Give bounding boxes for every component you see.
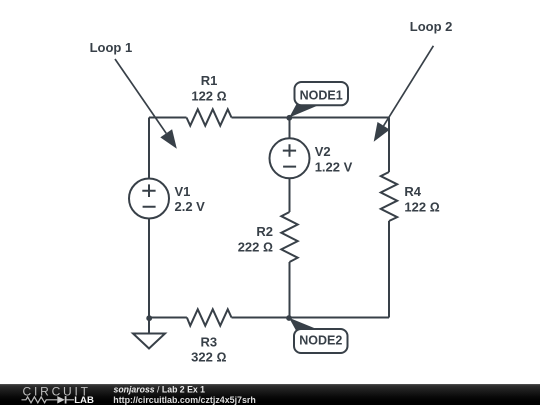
footer title text <box>114 384 206 394</box>
wire top middle (R1 to top-right corner through NODE1) <box>232 117 390 119</box>
footer logo resistor zigzag and diode <box>22 396 75 403</box>
V2 value label <box>315 144 353 174</box>
ground <box>133 318 165 349</box>
node NODE2 label bubble <box>289 318 348 353</box>
V1 value label <box>175 184 206 214</box>
wire bottom right (corner to NODE2) <box>232 317 390 319</box>
R4 value label <box>404 184 439 215</box>
wire left vertical top (corner to V1) <box>148 118 150 179</box>
footer logo LAB wordmark <box>74 395 94 405</box>
node NODE2 junction dot <box>286 315 292 321</box>
annotation Loop 1 text <box>90 40 133 55</box>
resistor R3 <box>187 309 232 325</box>
R3 value label <box>191 334 226 364</box>
svg-text:NODE1: NODE1 <box>300 88 343 102</box>
resistor R2 <box>281 212 297 262</box>
wire right vertical bottom (R4 to bottom corner) <box>388 221 390 318</box>
svg-text:Loop 2: Loop 2 <box>410 19 453 34</box>
svg-text:R4: R4 <box>404 184 421 199</box>
wire left vertical bottom (V1 to ground node) <box>148 219 150 318</box>
svg-text:2.2 V: 2.2 V <box>175 199 206 214</box>
svg-text:LAB: LAB <box>74 395 94 405</box>
svg-text:Loop 1: Loop 1 <box>90 40 133 55</box>
resistor R4 <box>381 172 397 221</box>
node NODE1 junction dot <box>286 115 292 121</box>
svg-text:122 Ω: 122 Ω <box>191 88 226 103</box>
svg-text:R3: R3 <box>200 334 217 349</box>
footer CircuitLab logo CIRCUIT wordmark <box>23 385 91 399</box>
wire middle (V2 to R2) <box>289 178 291 212</box>
svg-text:322 Ω: 322 Ω <box>191 350 226 365</box>
svg-text:sonjaross / Lab 2 Ex 1: sonjaross / Lab 2 Ex 1 <box>114 384 206 394</box>
svg-text:222 Ω: 222 Ω <box>238 239 273 254</box>
annotation Loop 2 text <box>410 19 453 34</box>
svg-text:V2: V2 <box>315 144 331 159</box>
wire bottom left (R3 to ground node) <box>149 317 187 319</box>
footer bar <box>0 384 540 405</box>
wire top-left horizontal (corner to R1) <box>149 117 187 119</box>
wire right vertical top (corner to R4) <box>388 118 390 173</box>
svg-text:NODE2: NODE2 <box>299 333 342 347</box>
resistor R1 <box>187 109 232 125</box>
node ground junction dot <box>146 315 152 321</box>
svg-text:R2: R2 <box>256 224 273 239</box>
svg-text:1.22 V: 1.22 V <box>315 159 353 174</box>
R1 value label <box>191 73 226 103</box>
voltage source V1 <box>129 179 169 219</box>
wire middle (R2 to NODE2) <box>289 262 291 318</box>
wire middle stub (NODE1 to V2) <box>289 118 291 139</box>
footer url text <box>113 395 256 405</box>
svg-text:R1: R1 <box>201 73 218 88</box>
svg-text:http://circuitlab.com/cztjz4x5: http://circuitlab.com/cztjz4x5j7srh <box>113 395 256 405</box>
svg-text:V1: V1 <box>175 184 191 199</box>
voltage source V2 <box>270 138 310 178</box>
annotation Loop 2 arrow <box>374 46 434 142</box>
R2 value label <box>238 224 273 254</box>
node NODE1 label bubble <box>289 82 348 118</box>
annotation Loop 1 arrow <box>115 59 177 149</box>
svg-text:122 Ω: 122 Ω <box>404 200 439 215</box>
